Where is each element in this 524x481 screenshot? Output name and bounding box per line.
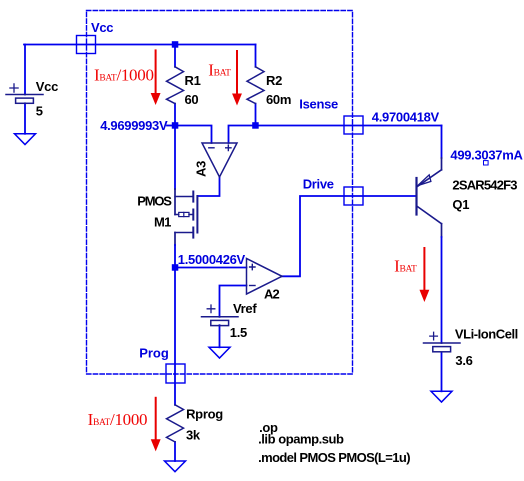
junction node 4.9699993V <box>172 122 179 129</box>
svg-text:IBAT: IBAT <box>394 256 417 275</box>
wire node to A2 plus input <box>175 267 247 269</box>
current arrow IBAT/1000 top <box>151 50 159 103</box>
wire R2 bottom <box>255 104 257 126</box>
resistor R1 <box>167 67 184 104</box>
dashed subcircuit boundary box <box>87 11 353 375</box>
wire M1 drain to node 1.5000426V <box>174 233 176 246</box>
wire R2 top <box>255 45 257 67</box>
svg-text:R1: R1 <box>185 73 201 88</box>
svg-text:4.9699993V: 4.9699993V <box>100 118 168 133</box>
svg-text:3k: 3k <box>186 427 201 442</box>
svg-text:A3: A3 <box>193 161 208 177</box>
svg-text:PMOS: PMOS <box>137 194 172 209</box>
svg-text:R2: R2 <box>266 73 282 88</box>
current probe marker square <box>484 161 489 165</box>
junction node Isense <box>252 122 259 129</box>
svg-text:Vcc: Vcc <box>36 79 58 94</box>
port Drive <box>344 187 363 205</box>
svg-text:VLi-IonCell: VLi-IonCell <box>455 326 518 341</box>
junction node 1.5000426V <box>172 264 179 271</box>
ground (VLi-IonCell) <box>431 391 452 402</box>
transistor Q1 <box>417 170 442 224</box>
svg-text:1.5000426V: 1.5000426V <box>178 252 246 267</box>
current arrow IBAT/1000 bottom <box>152 398 160 450</box>
svg-text:Vcc: Vcc <box>91 20 113 35</box>
svg-text:499.3037mA: 499.3037mA <box>450 147 523 162</box>
svg-text:IBAT: IBAT <box>208 60 231 79</box>
wire Vcc battery to ground <box>24 103 26 134</box>
wire battery to ground <box>441 353 443 391</box>
wire A2 minus input to Vref <box>220 286 247 317</box>
svg-text:5: 5 <box>36 103 43 118</box>
svg-text:Rprog: Rprog <box>186 406 223 421</box>
svg-text:IBAT/1000: IBAT/1000 <box>88 410 148 429</box>
port Prog <box>166 364 185 383</box>
svg-text:.model PMOS PMOS(L=1u): .model PMOS PMOS(L=1u) <box>258 450 410 465</box>
svg-text:Drive: Drive <box>303 177 334 192</box>
wire Q1 collector down to battery <box>441 224 443 237</box>
wire A2 output to Drive to Q1 base <box>282 196 416 276</box>
current arrow IBAT right <box>420 248 428 301</box>
svg-text:M1: M1 <box>154 214 171 229</box>
resistor R2 <box>247 67 264 104</box>
wire R1 top <box>174 45 176 67</box>
wire Isense down to Q1 emitter <box>441 126 443 159</box>
op-amp A2 <box>247 259 283 295</box>
wire Vcc source top lead <box>24 45 26 95</box>
resistor Rprog <box>167 405 184 442</box>
wire node down to M1 source and bulk <box>174 126 176 190</box>
svg-text:1.5: 1.5 <box>230 325 247 340</box>
port Vcc <box>77 36 96 54</box>
junction node top <box>172 41 179 48</box>
svg-text:IBAT/1000: IBAT/1000 <box>94 66 154 85</box>
wire node down through Prog port to Rprog <box>174 268 176 405</box>
transistor M1 PMOS <box>175 192 197 238</box>
wire Rprog to ground <box>174 442 176 461</box>
svg-text:.lib opamp.sub: .lib opamp.sub <box>258 432 344 447</box>
svg-text:60: 60 <box>185 92 199 107</box>
svg-text:2SAR542F3: 2SAR542F3 <box>452 177 517 192</box>
wire Vref to ground <box>219 325 221 347</box>
wire R1 bottom <box>174 104 176 126</box>
wire node to A3 minus input <box>175 126 212 144</box>
wire A3 output to M1 gate <box>197 177 219 196</box>
voltage source Vcc battery <box>6 84 43 103</box>
svg-text:Isense: Isense <box>299 96 338 111</box>
port Isense <box>344 116 363 134</box>
ground (Rprog) <box>165 461 186 472</box>
wire top rail Vcc <box>24 44 256 46</box>
svg-text:Vref: Vref <box>233 301 257 316</box>
svg-text:4.9700418V: 4.9700418V <box>372 110 440 125</box>
ground (Vref) <box>209 347 230 358</box>
op-amp A3 <box>202 143 237 177</box>
svg-text:60m: 60m <box>266 92 291 107</box>
svg-text:A2: A2 <box>264 286 279 301</box>
ground (Vcc source) <box>15 134 36 145</box>
current arrow IBAT middle <box>233 51 241 104</box>
svg-text:Prog: Prog <box>139 345 169 360</box>
svg-text:Q1: Q1 <box>452 197 469 212</box>
svg-text:3.6: 3.6 <box>455 353 472 368</box>
voltage source VLi-IonCell battery <box>424 332 461 352</box>
wire A3 plus input to Isense rail <box>229 126 442 144</box>
wire label stub node 4.9699993V <box>167 125 175 127</box>
voltage source Vref battery <box>202 305 239 326</box>
